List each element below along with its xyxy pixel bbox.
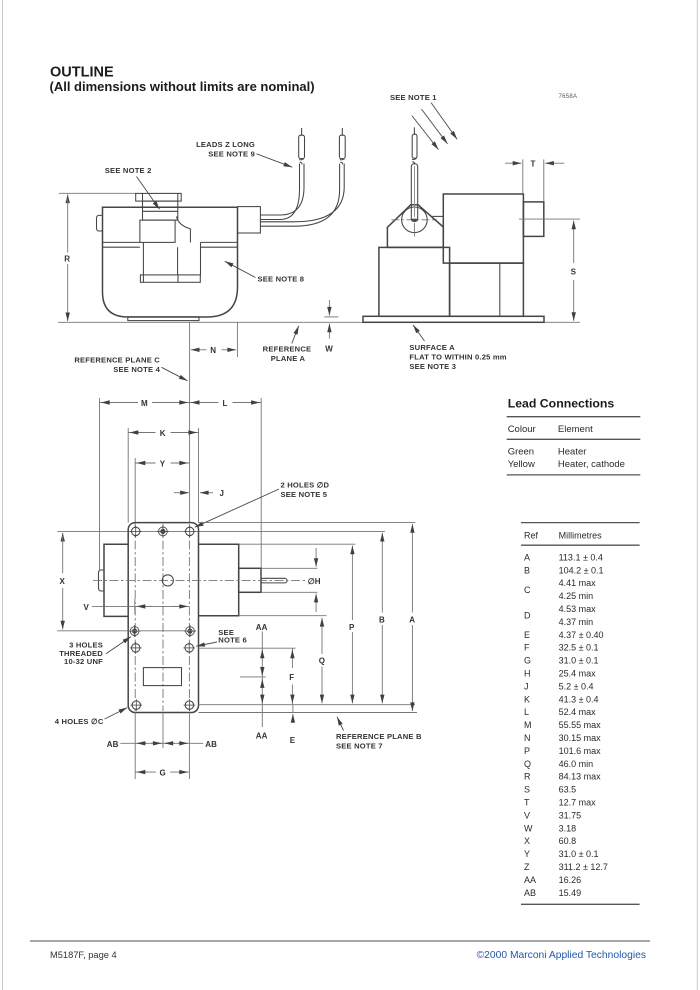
rule 2 bbox=[507, 438, 641, 440]
wire yellow (outer) bbox=[260, 164, 344, 222]
svg-text:31.0 ± 0.1: 31.0 ± 0.1 bbox=[559, 849, 599, 859]
svg-text:SEE NOTE 3: SEE NOTE 3 bbox=[409, 362, 456, 371]
svg-text:A: A bbox=[524, 552, 530, 562]
horizontal centerline bbox=[93, 579, 306, 581]
dimension Y bbox=[135, 459, 189, 468]
block bottom extension to Q bbox=[239, 615, 327, 617]
leader reference plane B bbox=[337, 717, 344, 731]
svg-text:(All dimensions without limits: (All dimensions without limits are nomin… bbox=[50, 79, 315, 94]
svg-text:M: M bbox=[141, 399, 148, 408]
dimension A bbox=[409, 524, 415, 711]
svg-text:Y: Y bbox=[524, 849, 530, 859]
svg-text:4.37 min: 4.37 min bbox=[559, 617, 594, 627]
output stub bbox=[239, 568, 261, 592]
svg-text:S: S bbox=[571, 268, 577, 277]
dimension T extension left bbox=[522, 159, 524, 193]
cathode circle bbox=[402, 207, 428, 233]
svg-text:AB: AB bbox=[524, 888, 536, 898]
svg-text:N: N bbox=[524, 733, 531, 743]
central column bbox=[142, 242, 144, 275]
leader note 2 bbox=[137, 177, 160, 210]
dimension W short line bbox=[324, 316, 338, 318]
dimension V tick bbox=[134, 599, 136, 614]
yoke lower edge left (double line) bbox=[103, 241, 140, 243]
svg-text:R: R bbox=[64, 255, 70, 264]
leader note 9 bbox=[257, 154, 293, 167]
wire green (inner) bbox=[260, 164, 304, 215]
svg-text:J: J bbox=[524, 681, 529, 691]
vertical centerline right holes bbox=[188, 524, 190, 711]
dimension K extension lines bbox=[127, 428, 129, 523]
anode pin bbox=[261, 578, 287, 583]
column foot plate bbox=[140, 275, 200, 282]
threaded hole mid-left bbox=[129, 625, 141, 637]
svg-text:AA: AA bbox=[256, 623, 268, 632]
svg-text:SEE NOTE 5: SEE NOTE 5 bbox=[281, 490, 328, 499]
leader note 8 bbox=[225, 261, 256, 277]
center hole bbox=[162, 575, 173, 586]
housing to box joint line bbox=[433, 215, 444, 217]
svg-text:AB: AB bbox=[205, 740, 217, 749]
threaded hole mid-right bbox=[184, 625, 196, 637]
svg-text:16.26: 16.26 bbox=[559, 875, 582, 885]
leader note 6 bbox=[196, 642, 217, 646]
pedestal block bbox=[379, 247, 450, 316]
left tab bbox=[99, 570, 105, 591]
svg-text:12.7 max: 12.7 max bbox=[559, 798, 597, 808]
lower body divider bbox=[499, 263, 501, 316]
svg-text:Millimetres: Millimetres bbox=[559, 531, 603, 541]
heater connector block bbox=[238, 207, 261, 233]
dimension L extension line bbox=[260, 398, 262, 568]
upper column block bbox=[140, 220, 175, 242]
svg-text:REFERENCE PLANE C: REFERENCE PLANE C bbox=[74, 356, 160, 365]
svg-text:FLAT TO WITHIN 0.25 mm: FLAT TO WITHIN 0.25 mm bbox=[409, 352, 506, 361]
svg-text:SURFACE A: SURFACE A bbox=[409, 343, 455, 352]
H extension top bbox=[261, 567, 317, 569]
dimension Y extension line bbox=[134, 458, 136, 524]
dimension N bbox=[191, 346, 236, 355]
below-plate vertical left bbox=[134, 713, 136, 780]
dimension M extension line bbox=[99, 398, 101, 570]
top holes centerline extension bbox=[57, 530, 385, 532]
lead tube end cup bbox=[412, 219, 417, 222]
svg-text:X: X bbox=[60, 577, 66, 586]
H extension bottom bbox=[261, 591, 317, 593]
svg-text:P: P bbox=[349, 623, 355, 632]
svg-text:60.8: 60.8 bbox=[559, 836, 577, 846]
ref table top rule bbox=[521, 522, 640, 524]
svg-text:2 HOLES ∅D: 2 HOLES ∅D bbox=[281, 480, 330, 489]
dimension H arrows bbox=[308, 548, 321, 612]
bottom holes extension bbox=[199, 704, 416, 706]
svg-text:E: E bbox=[524, 630, 530, 640]
svg-text:NOTE 6: NOTE 6 bbox=[218, 636, 247, 645]
svg-text:©2000 Marconi Applied Technolo: ©2000 Marconi Applied Technologies bbox=[477, 950, 646, 961]
dimension AB bbox=[107, 740, 217, 749]
magnetron body outline bbox=[103, 207, 238, 317]
slot center extension bbox=[240, 676, 266, 678]
hole bottom-left bbox=[131, 699, 143, 711]
svg-text:Yellow: Yellow bbox=[508, 459, 535, 470]
footer rule bbox=[30, 940, 650, 942]
svg-text:Lead Connections: Lead Connections bbox=[508, 397, 615, 411]
below-plate vertical right bbox=[188, 713, 190, 780]
svg-text:63.5: 63.5 bbox=[559, 785, 577, 795]
svg-text:J: J bbox=[220, 489, 224, 498]
svg-text:113.1 ± 0.4: 113.1 ± 0.4 bbox=[559, 552, 603, 562]
svg-text:M: M bbox=[524, 720, 532, 730]
hole lower-left bbox=[130, 642, 142, 654]
svg-text:3.18: 3.18 bbox=[559, 823, 577, 833]
dimension Q bbox=[319, 618, 325, 703]
svg-text:AA: AA bbox=[524, 875, 536, 885]
dimension P bbox=[349, 546, 355, 704]
block top extension to P bbox=[239, 543, 356, 545]
leader surface A bbox=[413, 325, 425, 341]
svg-text:311.2 ± 12.7: 311.2 ± 12.7 bbox=[559, 862, 608, 872]
page right edge bbox=[696, 0, 698, 990]
svg-text:SEE NOTE 1: SEE NOTE 1 bbox=[390, 93, 437, 102]
ref table bottom rule bbox=[521, 903, 640, 905]
svg-text:SEE NOTE 8: SEE NOTE 8 bbox=[258, 275, 305, 284]
svg-text:15.49: 15.49 bbox=[559, 888, 582, 898]
lead tube B bbox=[339, 135, 345, 158]
dimension G bbox=[135, 769, 189, 778]
lead pigtail bbox=[413, 127, 415, 134]
svg-text:X: X bbox=[524, 836, 530, 846]
rule 1 bbox=[507, 416, 641, 418]
svg-text:C: C bbox=[524, 585, 531, 595]
svg-text:10-32 UNF: 10-32 UNF bbox=[64, 657, 103, 666]
lead B pigtail bbox=[341, 128, 343, 135]
svg-text:K: K bbox=[160, 429, 166, 438]
svg-text:V: V bbox=[84, 603, 90, 612]
note 1 arrow 1 bbox=[412, 116, 439, 150]
svg-text:B: B bbox=[379, 616, 385, 625]
cathode housing bbox=[387, 205, 443, 248]
svg-text:L: L bbox=[524, 707, 529, 717]
svg-text:T: T bbox=[531, 160, 536, 169]
svg-text:V: V bbox=[524, 810, 530, 820]
hole top-right bbox=[184, 526, 196, 538]
top cap flange bbox=[136, 193, 182, 201]
inner cavity left edge bbox=[200, 242, 202, 275]
note 1 arrow 2 bbox=[422, 109, 448, 144]
svg-text:T: T bbox=[524, 798, 530, 808]
cap block (see note 2 target) bbox=[143, 201, 178, 220]
svg-text:Heater: Heater bbox=[558, 447, 587, 458]
centerline through circle bbox=[391, 219, 437, 221]
hole lower-right bbox=[183, 642, 195, 654]
svg-text:31.75: 31.75 bbox=[559, 810, 582, 820]
svg-text:Q: Q bbox=[524, 759, 531, 769]
svg-text:SEE NOTE 7: SEE NOTE 7 bbox=[336, 741, 383, 750]
dimension M bbox=[100, 399, 190, 408]
ref table header rule bbox=[521, 544, 640, 546]
dimension S bbox=[571, 221, 577, 321]
left side tab bbox=[97, 215, 103, 231]
svg-text:55.55 max: 55.55 max bbox=[559, 720, 602, 730]
lead wire inside tube bbox=[414, 166, 416, 217]
svg-text:B: B bbox=[524, 565, 530, 575]
filter box transition curve bbox=[177, 217, 191, 229]
dimension N extension right bbox=[236, 322, 238, 357]
svg-text:Colour: Colour bbox=[508, 424, 536, 435]
dimension F bbox=[289, 648, 294, 704]
svg-text:REFERENCE PLANE B: REFERENCE PLANE B bbox=[336, 732, 422, 741]
dimension R bbox=[64, 194, 70, 321]
svg-text:N: N bbox=[210, 346, 216, 355]
hole top-left bbox=[130, 526, 142, 538]
vertical centerline middle bbox=[162, 524, 164, 711]
svg-text:84.13 max: 84.13 max bbox=[559, 772, 602, 782]
baseline surface A bbox=[58, 321, 580, 323]
svg-text:Green: Green bbox=[508, 447, 534, 458]
dimension L bbox=[189, 399, 261, 408]
svg-text:REFERENCE: REFERENCE bbox=[263, 344, 312, 353]
leader reference plane A bbox=[292, 326, 299, 344]
dimension B bbox=[379, 533, 385, 704]
svg-text:52.4 max: 52.4 max bbox=[559, 707, 597, 717]
svg-text:104.2 ± 0.1: 104.2 ± 0.1 bbox=[559, 565, 604, 575]
svg-text:SEE NOTE 2: SEE NOTE 2 bbox=[105, 166, 152, 175]
svg-text:SEE NOTE 4: SEE NOTE 4 bbox=[113, 365, 160, 374]
svg-text:Q: Q bbox=[319, 657, 325, 666]
threaded hole top-middle bbox=[157, 525, 169, 537]
svg-text:M5187F, page 4: M5187F, page 4 bbox=[50, 950, 117, 960]
svg-text:25.4 max: 25.4 max bbox=[559, 669, 597, 679]
leader 4 holes bbox=[105, 708, 128, 719]
svg-text:L: L bbox=[223, 399, 228, 408]
X dim top is holes line; X bottom extension bbox=[57, 630, 196, 632]
svg-text:4 HOLES ∅C: 4 HOLES ∅C bbox=[55, 717, 104, 726]
body base pad bbox=[128, 317, 199, 321]
yoke lower edge right (double line) bbox=[201, 241, 238, 243]
below-plate vertical middle bbox=[162, 713, 164, 749]
svg-text:SEE NOTE 9: SEE NOTE 9 bbox=[208, 150, 255, 159]
svg-text:R: R bbox=[524, 772, 531, 782]
reference plane C vertical line bbox=[189, 322, 191, 522]
hole bottom-right bbox=[184, 699, 196, 711]
svg-text:PLANE A: PLANE A bbox=[271, 354, 306, 363]
lower body box bbox=[450, 263, 524, 316]
svg-text:F: F bbox=[289, 673, 294, 682]
svg-text:4.37 ± 0.40: 4.37 ± 0.40 bbox=[559, 630, 604, 640]
svg-text:4.53 max: 4.53 max bbox=[559, 604, 597, 614]
page left edge bbox=[2, 0, 4, 990]
dimension V bbox=[84, 603, 190, 612]
leader note 5 bbox=[195, 489, 279, 527]
lead break marks bbox=[412, 158, 417, 159]
svg-text:H: H bbox=[524, 669, 531, 679]
dimension K bbox=[128, 429, 198, 438]
vertical centerline left holes bbox=[134, 524, 136, 711]
dimension E bbox=[290, 705, 296, 745]
svg-text:G: G bbox=[524, 656, 531, 666]
svg-text:32.5 ± 0.1: 32.5 ± 0.1 bbox=[559, 643, 599, 653]
reference plane B line bbox=[199, 712, 418, 714]
lead tube lower bbox=[411, 164, 417, 222]
lead A pigtail bbox=[301, 128, 303, 135]
leader threaded holes bbox=[106, 637, 131, 654]
dimension X bbox=[60, 533, 66, 630]
svg-text:K: K bbox=[524, 694, 530, 704]
svg-text:S: S bbox=[524, 785, 530, 795]
dimension W arrows bbox=[325, 300, 333, 354]
svg-text:∅H: ∅H bbox=[308, 577, 321, 586]
svg-text:G: G bbox=[160, 769, 166, 778]
svg-text:P: P bbox=[524, 746, 530, 756]
svg-text:E: E bbox=[290, 736, 296, 745]
dimension J bbox=[174, 489, 224, 498]
svg-text:30.15 max: 30.15 max bbox=[559, 733, 602, 743]
right block bbox=[199, 544, 239, 616]
leader reference plane C bbox=[162, 367, 188, 381]
vertical centerline below circle bbox=[413, 223, 415, 237]
ref table rows bbox=[524, 552, 608, 897]
svg-text:A: A bbox=[409, 616, 415, 625]
svg-text:W: W bbox=[524, 823, 533, 833]
mounting plate bbox=[128, 523, 198, 713]
svg-text:Element: Element bbox=[558, 424, 593, 435]
lower holes extension bbox=[199, 647, 296, 649]
dimension S top extension bbox=[519, 218, 580, 220]
svg-text:Z: Z bbox=[524, 862, 530, 872]
svg-text:7658A: 7658A bbox=[559, 94, 578, 100]
base plate bbox=[363, 316, 544, 322]
svg-text:Y: Y bbox=[160, 459, 166, 468]
svg-text:4.25 min: 4.25 min bbox=[559, 591, 594, 601]
rule 3 bbox=[507, 474, 641, 476]
svg-text:AB: AB bbox=[107, 740, 119, 749]
svg-text:4.41 max: 4.41 max bbox=[559, 578, 597, 588]
svg-text:D: D bbox=[524, 611, 531, 621]
lead tube A bbox=[299, 135, 305, 158]
svg-text:5.2 ± 0.4: 5.2 ± 0.4 bbox=[559, 681, 594, 691]
main body box bbox=[443, 194, 523, 263]
lead B break marks bbox=[340, 159, 345, 160]
svg-text:AA: AA bbox=[256, 732, 268, 741]
svg-text:LEADS Z LONG: LEADS Z LONG bbox=[196, 140, 255, 149]
svg-text:Ref: Ref bbox=[524, 531, 539, 541]
svg-text:101.6 max: 101.6 max bbox=[559, 746, 602, 756]
connector slot bbox=[143, 668, 181, 686]
output block right bbox=[523, 202, 543, 237]
svg-text:41.3 ± 0.4: 41.3 ± 0.4 bbox=[559, 694, 599, 704]
svg-text:31.0 ± 0.1: 31.0 ± 0.1 bbox=[559, 656, 599, 666]
dimension T bbox=[505, 160, 564, 169]
svg-text:46.0 min: 46.0 min bbox=[559, 759, 594, 769]
dimension R extension line top bbox=[59, 192, 136, 194]
plate top extension to A bbox=[199, 522, 416, 524]
dimension T extension right bbox=[543, 159, 545, 201]
lead A break marks bbox=[299, 159, 304, 160]
dimension AA bbox=[256, 623, 268, 741]
note 1 arrow 3 bbox=[431, 103, 457, 140]
svg-text:F: F bbox=[524, 643, 530, 653]
svg-text:W: W bbox=[325, 345, 333, 354]
lead tube upper bbox=[412, 134, 417, 158]
left block bbox=[104, 544, 128, 616]
svg-text:Heater, cathode: Heater, cathode bbox=[558, 459, 625, 470]
